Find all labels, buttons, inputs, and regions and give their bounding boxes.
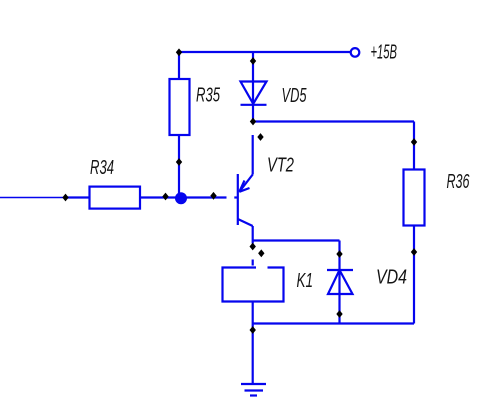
svg-text:+15В: +15В <box>371 42 398 64</box>
svg-text:VT2: VT2 <box>267 155 294 177</box>
svg-text:R36: R36 <box>447 171 471 193</box>
svg-text:R34: R34 <box>90 157 114 179</box>
svg-text:VD4: VD4 <box>376 267 407 289</box>
svg-text:K1: K1 <box>297 270 314 292</box>
svg-text:R35: R35 <box>196 85 221 107</box>
svg-text:VD5: VD5 <box>282 85 308 107</box>
